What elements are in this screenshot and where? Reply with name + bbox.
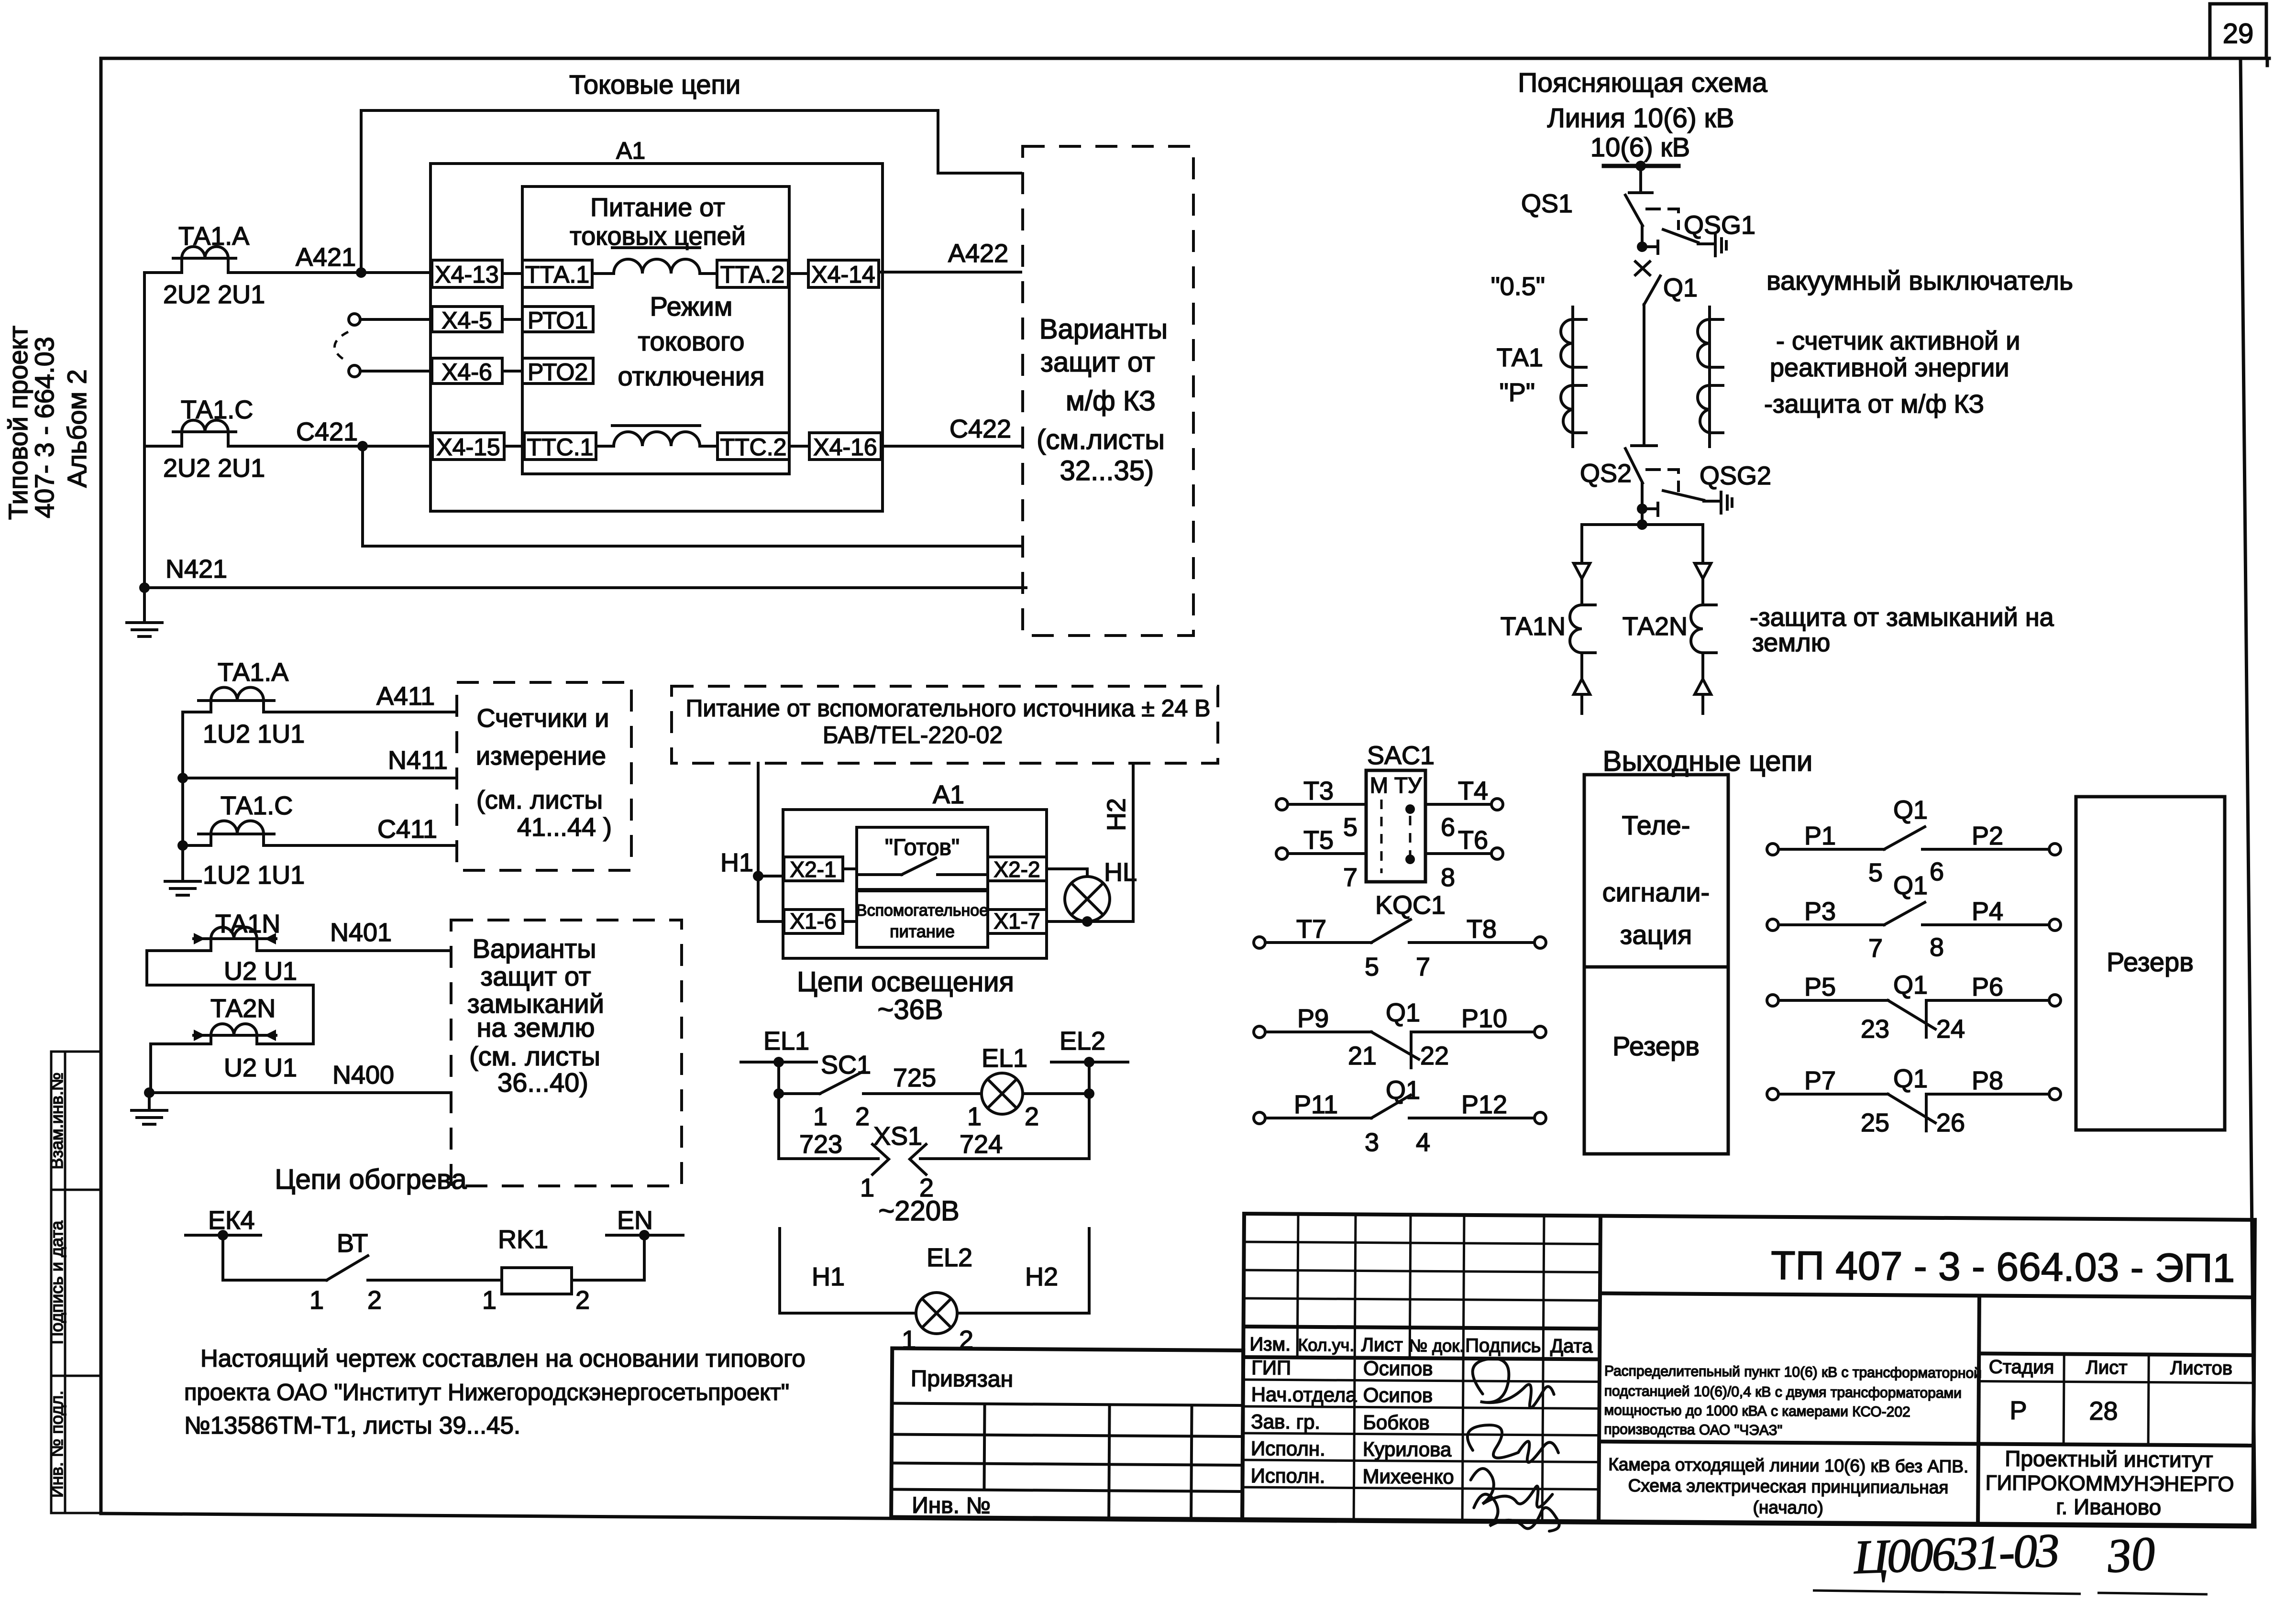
wire H2 drop <box>1132 763 1135 921</box>
contact SC1 blade <box>820 1072 862 1094</box>
svg-text:Кол.уч.: Кол.уч. <box>1298 1335 1354 1355</box>
Q1 bottom bar <box>1632 444 1656 447</box>
wire X2-1 to inner <box>843 867 857 870</box>
svg-text:Листов: Листов <box>2170 1358 2232 1379</box>
svg-text:6: 6 <box>1930 857 1944 886</box>
QS1 blade <box>1625 195 1643 226</box>
svg-text:Х4-16: Х4-16 <box>813 434 877 461</box>
svg-text:Х4-6: Х4-6 <box>442 359 492 385</box>
svg-text:Вспомогательное: Вспомогательное <box>856 901 988 920</box>
wire TTA.1 to TTA.2 <box>592 272 717 275</box>
svg-text:Р1: Р1 <box>1804 822 1836 850</box>
QSG1 fixed tick <box>1656 241 1659 253</box>
terminal box PTO2 <box>522 358 593 384</box>
TA2N steps <box>211 1035 257 1044</box>
svg-text:2: 2 <box>575 1286 590 1315</box>
svg-text:Осипов: Осипов <box>1363 1384 1433 1407</box>
terminal box X4-14 <box>808 260 879 287</box>
svg-text:Р4: Р4 <box>1972 897 2003 926</box>
svg-text:8: 8 <box>1441 863 1455 892</box>
svg-text:Дата: Дата <box>1550 1336 1593 1357</box>
junction dot N400 ground <box>144 1087 155 1098</box>
switch SAC1 box <box>1366 770 1425 882</box>
relay block A1 outline <box>430 164 883 511</box>
Q1 main vertical wire <box>1643 305 1645 445</box>
wire C421 <box>144 445 432 448</box>
svg-text:Исполн.: Исполн. <box>1251 1437 1325 1460</box>
svg-text:А422: А422 <box>948 239 1008 268</box>
wire SC1 to lamp EL1 <box>863 1092 982 1095</box>
svg-text:Привязан: Привязан <box>911 1366 1013 1392</box>
svg-text:Питание от вспомогательного ис: Питание от вспомогательного источника ± … <box>685 695 1210 722</box>
svg-text:Т7: Т7 <box>1296 915 1326 943</box>
svg-text:питание: питание <box>890 921 955 941</box>
svg-text:Т6: Т6 <box>1458 826 1488 855</box>
junction dot splitter <box>1637 519 1647 530</box>
svg-text:Н1: Н1 <box>720 848 753 877</box>
terminal box X2-1 <box>784 857 843 881</box>
terminal box X1-6 <box>784 910 843 933</box>
svg-text:Т4: Т4 <box>1458 777 1488 805</box>
svg-text:ТА2N: ТА2N <box>1623 612 1688 641</box>
sheet number box 29 <box>2210 4 2266 58</box>
wire bus drop <box>1639 166 1642 191</box>
svg-text:- счетчик активной и: - счетчик активной и <box>1776 327 2020 355</box>
TA1N steps <box>211 939 257 951</box>
inner box Готов <box>857 827 988 889</box>
svg-text:Проектный институт: Проектный институт <box>2005 1446 2213 1472</box>
svg-text:25: 25 <box>1861 1108 1889 1137</box>
QS2 blade <box>1625 449 1643 483</box>
svg-text:HL: HL <box>1104 858 1137 887</box>
svg-text:5: 5 <box>1343 813 1358 842</box>
svg-text:Q1: Q1 <box>1893 871 1928 900</box>
svg-text:Курилова: Курилова <box>1363 1438 1452 1461</box>
svg-text:Р6: Р6 <box>1972 973 2003 1001</box>
QSG2 fixed tick <box>1656 503 1659 515</box>
svg-text:724: 724 <box>960 1130 1003 1159</box>
CT TA1.C meters steps <box>211 834 264 845</box>
svg-text:723: 723 <box>799 1130 842 1159</box>
TA2N primary line <box>194 1034 276 1037</box>
svg-text:725: 725 <box>893 1064 936 1092</box>
svg-text:Р12: Р12 <box>1461 1090 1507 1119</box>
svg-text:Х2-2: Х2-2 <box>993 857 1040 882</box>
svg-text:26: 26 <box>1936 1108 1965 1137</box>
junction dot N411 <box>177 773 188 783</box>
terminal box TTC.2 <box>717 433 789 460</box>
box Резерв (right) <box>2076 797 2225 1130</box>
svg-text:Q1: Q1 <box>1893 796 1928 824</box>
svg-text:7: 7 <box>1343 863 1358 892</box>
svg-text:Н1: Н1 <box>812 1262 845 1291</box>
CT TA1.C secondary steps <box>182 432 228 446</box>
svg-text:Q1: Q1 <box>1386 1076 1420 1105</box>
svg-text:KQC1: KQC1 <box>1375 891 1446 920</box>
wire X4-5 to PTO1 <box>502 318 522 321</box>
contact KQC1 blade <box>1371 920 1411 943</box>
svg-text:Р7: Р7 <box>1804 1066 1836 1095</box>
svg-text:Выходные цепи: Выходные цепи <box>1603 745 1813 777</box>
svg-text:Михеенко: Михеенко <box>1363 1465 1454 1488</box>
wire to X4-5 <box>360 318 432 321</box>
svg-text:Взам.инв.№: Взам.инв.№ <box>47 1072 66 1169</box>
wire TTC.1 to TTC.2 <box>596 445 717 448</box>
svg-text:1: 1 <box>482 1286 497 1315</box>
wire T4 <box>1425 803 1492 806</box>
revision grid rows <box>1244 1242 1601 1244</box>
svg-text:1: 1 <box>813 1102 828 1131</box>
zero-sequence CT TA1N <box>132 927 451 1124</box>
svg-text:Схема электрическая принципиал: Схема электрическая принципиальная <box>1628 1476 1949 1497</box>
svg-text:ТА1N: ТА1N <box>215 910 280 938</box>
svg-text:N400: N400 <box>332 1061 394 1089</box>
svg-text:EL2: EL2 <box>1060 1027 1105 1055</box>
svg-text:ЕК4: ЕК4 <box>208 1206 255 1235</box>
ground symbol TA2N <box>132 1093 167 1124</box>
svg-text:м/ф КЗ: м/ф КЗ <box>1066 385 1156 417</box>
svg-text:~36В: ~36В <box>877 994 943 1025</box>
svg-text:Распределитепьный пункт 10(6): Распределитепьный пункт 10(6) кВ с транс… <box>1604 1363 1982 1382</box>
svg-text:QS1: QS1 <box>1521 189 1573 218</box>
svg-text:подстанцией 10(6)/0,4 кВ с дву: подстанцией 10(6)/0,4 кВ с двумя трансфо… <box>1604 1383 1962 1402</box>
svg-text:ТА1.С: ТА1.С <box>181 395 253 424</box>
svg-text:Токовые цепи: Токовые цепи <box>569 69 740 99</box>
svg-text:1: 1 <box>967 1102 982 1131</box>
open contact circle row X4-6 <box>349 365 360 377</box>
wire X1-6 to inner <box>843 920 857 923</box>
terminal box TTA.1 <box>522 260 592 287</box>
svg-text:А1: А1 <box>933 780 964 809</box>
svg-text:Q1: Q1 <box>1893 1064 1928 1093</box>
terminal box PTO1 <box>522 307 593 332</box>
svg-text:Р11: Р11 <box>1294 1090 1338 1119</box>
lower branch 723 <box>779 1094 878 1159</box>
svg-text:реактивной энергии: реактивной энергии <box>1770 353 2009 382</box>
lamp EL1 <box>982 1073 1023 1114</box>
wire C421 branch down to protection box <box>363 446 1021 546</box>
svg-text:(начало): (начало) <box>1753 1498 1824 1518</box>
svg-text:-защита от м/ф КЗ: -защита от м/ф КЗ <box>1764 390 1984 418</box>
svg-text:защит от: защит от <box>1040 347 1155 378</box>
dashed box Счетчики и измерение <box>457 682 631 870</box>
svg-text:РТО2: РТО2 <box>528 359 588 385</box>
winding TTA humps <box>614 259 700 274</box>
open contact circle row X4-5 <box>349 314 360 325</box>
svg-text:EN: EN <box>617 1206 653 1235</box>
svg-text:29: 29 <box>2223 18 2254 49</box>
wire to TA1N <box>1580 579 1583 605</box>
svg-text:RK1: RK1 <box>498 1225 548 1254</box>
CT TA1.C winding humps <box>182 420 228 432</box>
svg-text:SAC1: SAC1 <box>1367 741 1435 770</box>
junction dot A421/top bus <box>356 267 366 278</box>
svg-text:Стадия: Стадия <box>1989 1357 2054 1378</box>
svg-text:N411: N411 <box>388 746 448 775</box>
junction dot QS2 bottom <box>1637 504 1647 514</box>
CT right winding 2 <box>1698 385 1710 433</box>
svg-text:Q1: Q1 <box>1386 998 1420 1027</box>
svg-text:отключения: отключения <box>618 361 765 391</box>
svg-text:N401: N401 <box>330 918 392 947</box>
wire node to QSG1 tick <box>1642 245 1658 248</box>
contact Q1 P11/P12 (NO) <box>1265 1095 1535 1118</box>
lamp HL <box>1065 877 1110 921</box>
plug XS1 left <box>872 1144 889 1174</box>
terminal line EN <box>607 1234 683 1237</box>
Q1 blade <box>1644 276 1660 305</box>
title block outline <box>1242 1214 2255 1525</box>
signature rows <box>1243 1380 1600 1382</box>
signatures (handwritten style) <box>1467 1359 1560 1531</box>
svg-text:5: 5 <box>1868 858 1883 887</box>
QSG2 dashed link <box>1647 470 1678 491</box>
wire EK4 down <box>221 1235 224 1280</box>
220V left stub <box>780 1228 916 1313</box>
wire N421 <box>144 586 1026 589</box>
annex box Привязан <box>891 1349 1243 1519</box>
contact Q1 P1/P2 <box>1779 827 2049 849</box>
wire to TA2N <box>1701 579 1704 605</box>
svg-text:Н2: Н2 <box>1102 798 1131 831</box>
svg-text:мощностью до 1000 кВА с камера: мощностью до 1000 кВА с камерами КСО-202 <box>1604 1403 1910 1420</box>
svg-text:зация: зация <box>1620 920 1692 950</box>
terminal line EL2 <box>1051 1061 1128 1064</box>
box Теле-сигнализация / Резерв <box>1584 775 1728 1154</box>
svg-text:22: 22 <box>1420 1042 1449 1070</box>
contact Q1 P5/P6 (NC) <box>1779 1000 2049 1037</box>
up triangle left <box>1574 679 1590 694</box>
svg-text:г. Иваново: г. Иваново <box>2056 1494 2161 1519</box>
right part lines <box>1600 1294 2254 1297</box>
CT TA1N winding <box>1570 605 1582 653</box>
svg-text:QSG1: QSG1 <box>1684 211 1755 240</box>
svg-text:Настоящий чертеж составлен на: Настоящий чертеж составлен на основании … <box>200 1345 806 1372</box>
svg-text:Р5: Р5 <box>1804 973 1836 1001</box>
CT TA2N primary continues <box>1701 653 1704 679</box>
svg-text:ТТА.2: ТТА.2 <box>720 261 784 288</box>
terminal box X2-2 <box>988 857 1047 881</box>
dashed box Питание от вспомогательного источника <box>672 686 1218 763</box>
ground symbol at left bus <box>127 588 162 636</box>
wire top bus from node A421 to protection box <box>361 110 1021 268</box>
wire RK1 to EN <box>572 1235 644 1280</box>
svg-text:Варианты: Варианты <box>473 933 596 964</box>
svg-text:ВТ: ВТ <box>337 1229 368 1258</box>
svg-text:23: 23 <box>1861 1015 1889 1043</box>
junction dot busbar <box>1635 161 1646 171</box>
winding TTC humps <box>614 432 700 446</box>
left vertical bus meters <box>181 712 184 880</box>
wire N400 + down <box>149 1044 152 1093</box>
TA2N humps <box>211 1024 257 1035</box>
QS1 fixed contact bar <box>1629 191 1652 194</box>
svg-text:Теле-: Теле- <box>1622 810 1690 840</box>
svg-text:Х4-14: Х4-14 <box>811 261 875 288</box>
wire node to QSG2 tick <box>1642 507 1658 510</box>
lamp EL2 <box>916 1293 957 1334</box>
contact KQC1 T7 wire <box>1265 941 1371 944</box>
CT right ticks <box>1710 319 1723 433</box>
svg-text:2U2 2U1: 2U2 2U1 <box>163 454 265 482</box>
svg-text:24: 24 <box>1936 1015 1965 1043</box>
lower branch 724 <box>920 1094 1089 1159</box>
CT TA1.A secondary steps <box>182 258 228 273</box>
wire QS2 to node <box>1641 483 1644 525</box>
svg-text:3: 3 <box>1365 1128 1379 1157</box>
junction dot C411 <box>177 840 188 851</box>
svg-text:Поясняющая схема: Поясняющая схема <box>1518 67 1767 98</box>
svg-text:36...40): 36...40) <box>497 1067 588 1097</box>
svg-text:на землю: на землю <box>477 1012 595 1042</box>
contact BT blade <box>327 1256 368 1280</box>
svg-text:10(6) кВ: 10(6) кВ <box>1590 132 1690 162</box>
svg-text:ТТС.2: ТТС.2 <box>720 434 787 461</box>
svg-text:ТТА.1: ТТА.1 <box>525 261 589 288</box>
wire BT to RK1 <box>368 1279 502 1282</box>
handwritten inventory number <box>1852 1524 2157 1584</box>
wire lamp EL1 to right <box>1023 1092 1089 1095</box>
svg-text:С421: С421 <box>296 417 358 446</box>
svg-text:Р8: Р8 <box>1972 1066 2003 1095</box>
wire T3 <box>1287 803 1366 806</box>
contact Q1 P3/P4 <box>1779 902 2049 925</box>
svg-text:EL2: EL2 <box>927 1243 972 1272</box>
svg-text:32...35): 32...35) <box>1060 455 1154 486</box>
svg-text:QSG2: QSG2 <box>1700 461 1771 490</box>
svg-text:Х4-13: Х4-13 <box>435 261 498 288</box>
svg-text:Линия 10(6) кВ: Линия 10(6) кВ <box>1547 103 1734 133</box>
terminal circles T3..T6 <box>1276 799 1288 810</box>
CT TA1 winding P <box>1561 385 1573 433</box>
svg-text:1U2 1U1: 1U2 1U1 <box>203 720 305 748</box>
CT TA1 winding 0.5 <box>1561 319 1573 367</box>
svg-text:БАВ/TEL-220-02: БАВ/TEL-220-02 <box>823 722 1003 748</box>
svg-text:С422: С422 <box>949 415 1011 443</box>
QSG2 earth wire <box>1704 500 1719 503</box>
column lines <box>1297 1214 1298 1358</box>
svg-text:сигнали-: сигнали- <box>1602 877 1710 907</box>
terminal box TTC.1 <box>524 433 596 460</box>
svg-text:А421: А421 <box>296 243 356 272</box>
wire TA1N tail <box>1580 694 1583 713</box>
svg-text:1: 1 <box>860 1173 874 1202</box>
contact SC1 moving wire <box>779 1092 820 1095</box>
up triangle right <box>1695 679 1711 694</box>
svg-text:ГИП: ГИП <box>1251 1356 1291 1379</box>
svg-text:Осипов: Осипов <box>1363 1357 1433 1380</box>
svg-text:Р2: Р2 <box>1972 822 2003 850</box>
contact Готов wire <box>857 873 902 876</box>
terminal line EL1 <box>741 1061 817 1064</box>
svg-text:ТА1.А: ТА1.А <box>218 658 288 687</box>
wire to X4-6 <box>360 370 432 373</box>
resistor RK1 <box>502 1268 572 1294</box>
CT TA1N primary continues <box>1580 653 1583 679</box>
terminal line EK4 <box>186 1234 261 1237</box>
breaker X mark <box>1635 262 1650 275</box>
svg-text:Q1: Q1 <box>1663 274 1698 302</box>
wire X4-15 to TTC.1 <box>504 445 524 448</box>
CT TA2N ticks <box>1703 605 1716 653</box>
TA1N humps <box>211 927 257 939</box>
svg-text:(см.листы: (см.листы <box>1037 424 1165 455</box>
svg-text:С411: С411 <box>377 815 437 844</box>
ground symbol meters <box>165 881 200 895</box>
svg-text:Подпись: Подпись <box>1465 1335 1541 1357</box>
svg-text:28: 28 <box>2089 1397 2118 1426</box>
svg-text:Х2-1: Х2-1 <box>790 857 836 882</box>
terminal box X4-13 <box>432 260 502 287</box>
svg-text:ТА1: ТА1 <box>1497 343 1543 372</box>
terminal box X4-15 <box>432 433 504 460</box>
svg-text:вакуумный выключатель: вакуумный выключатель <box>1766 265 2073 296</box>
svg-text:Х1-6: Х1-6 <box>790 909 836 933</box>
svg-text:EL1: EL1 <box>763 1027 809 1055</box>
svg-text:Типовой проект: Типовой проект <box>3 326 33 520</box>
svg-text:Т8: Т8 <box>1467 915 1497 943</box>
splitter bar to cable CTs <box>1582 525 1703 562</box>
svg-text:21: 21 <box>1348 1042 1377 1070</box>
dashed box Варианты защит от замыканий <box>451 920 682 1186</box>
svg-text:U2 U1: U2 U1 <box>224 1053 297 1082</box>
svg-text:Нач.отдела: Нач.отдела <box>1251 1383 1358 1406</box>
svg-text:Р10: Р10 <box>1461 1004 1507 1033</box>
svg-text:Изм.: Изм. <box>1249 1334 1291 1355</box>
junction dot C421 branch <box>357 441 368 451</box>
wire H1 to X2-1 <box>758 875 784 877</box>
QSG1 earth bars <box>1715 235 1726 256</box>
junction dot N421 at left bus <box>139 582 150 593</box>
svg-text:Лист: Лист <box>1361 1335 1403 1356</box>
QSG1 blade <box>1663 230 1698 242</box>
CT TA1.A winding humps <box>182 247 228 258</box>
svg-text:7: 7 <box>1416 953 1430 981</box>
svg-text:ГИПРОКОММУНЭНЕРГО: ГИПРОКОММУНЭНЕРГО <box>1986 1471 2234 1496</box>
CT TA1 ticks <box>1573 319 1586 433</box>
wire T6 <box>1425 852 1492 855</box>
CT TA1N ticks <box>1582 605 1595 653</box>
svg-text:~220В: ~220В <box>878 1195 959 1227</box>
terminal box X4-6 <box>432 358 502 384</box>
QSG1 earth wire <box>1698 242 1713 245</box>
svg-text:2: 2 <box>1025 1102 1039 1131</box>
inner box Питание от токовых цепей <box>522 186 789 474</box>
CT TA2N winding <box>1691 605 1703 653</box>
svg-text:ТА1N: ТА1N <box>1501 612 1566 641</box>
CT TA1 left: primary wire <box>1571 307 1574 447</box>
plug XS1 right <box>910 1144 926 1174</box>
CT TA1.A primary line <box>173 257 236 260</box>
svg-text:защит от: защит от <box>481 961 591 991</box>
svg-text:Альбом 2: Альбом 2 <box>62 369 92 488</box>
wire N401 <box>147 949 451 952</box>
CT TA1.C meters primary <box>199 833 274 835</box>
SAC1 dashed positions <box>1380 800 1383 873</box>
svg-text:6: 6 <box>1441 813 1455 842</box>
svg-text:Подпись и дата: Подпись и дата <box>47 1220 66 1345</box>
TA2N arrows <box>194 1030 276 1041</box>
wire C411 <box>183 844 457 847</box>
svg-text:Питание от: Питание от <box>590 193 725 222</box>
wire to X1-6 <box>758 920 784 923</box>
svg-text:30: 30 <box>2105 1526 2157 1583</box>
svg-text:Q1: Q1 <box>1893 971 1928 999</box>
junction dot lamp HL bottom <box>1082 916 1093 927</box>
svg-text:М ТУ: М ТУ <box>1370 773 1422 798</box>
wire T5 <box>1287 852 1366 855</box>
terminal box X4-5 <box>432 307 502 332</box>
